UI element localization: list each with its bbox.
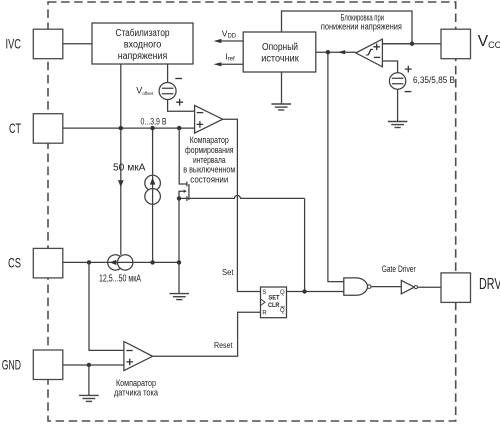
svg-text:состоянии: состоянии — [190, 175, 228, 185]
ground below Q1 — [170, 294, 190, 300]
U2 minus sign — [374, 56, 380, 58]
node Q junction — [302, 289, 306, 293]
wire U3 output to latch R input (Reset) — [153, 312, 261, 356]
U2 plus sign — [373, 44, 380, 51]
U3 label — [114, 378, 158, 398]
svg-text:R: R — [262, 311, 267, 317]
wire 50uA source vertical (CT rail to CS rail) — [152, 128, 154, 262]
wire CS rail — [63, 261, 179, 263]
svg-text:S: S — [262, 290, 266, 296]
latch U4 SET/CLR — [261, 287, 287, 318]
U3 minus sign — [126, 350, 132, 352]
svg-text:Компаратор: Компаратор — [116, 378, 156, 388]
svg-text:понижении напряжения: понижении напряжения — [321, 22, 402, 32]
off-time comparator U1 — [195, 105, 223, 133]
svg-text:Компаратор: Компаратор — [190, 135, 229, 145]
UVLO comparator U2 (points left) — [356, 39, 383, 67]
svg-text:источник: источник — [261, 54, 299, 65]
wire latch Q output to NAND bottom input — [287, 291, 344, 293]
arrow Iref to internal circuits — [220, 63, 244, 65]
svg-text:CLR: CLR — [268, 302, 280, 309]
wire U2 minus input to threshold source — [382, 61, 397, 73]
svg-text:Reset: Reset — [214, 340, 233, 350]
wire GND junction to ground — [88, 365, 90, 395]
wire driver to DRV pin — [418, 286, 442, 288]
ground below reference — [271, 104, 291, 110]
U1 minus sign — [197, 112, 203, 114]
block input voltage stabilizer — [92, 23, 193, 64]
latch clock triangle — [261, 299, 266, 306]
U3 plus sign — [126, 359, 133, 366]
UVLO block label — [321, 13, 402, 32]
node GND junction — [87, 363, 91, 367]
svg-text:GND: GND — [2, 356, 21, 372]
wire Q1 source line to latch Q column (with hop over Set line) — [179, 196, 305, 199]
svg-text:Gate Driver: Gate Driver — [382, 264, 416, 274]
svg-text:6,35/5,85 В: 6,35/5,85 В — [413, 75, 455, 85]
svg-text:Опорный: Опорный — [262, 42, 298, 53]
variable current source 12,5...50 uA (overlapping circles) — [108, 255, 133, 270]
node UVLO output junction — [326, 50, 330, 54]
V2 plus sign — [405, 66, 412, 73]
arrowhead current direction down — [118, 180, 124, 187]
wire GND pin to comparator plus input — [63, 364, 124, 366]
wire U2 output to reference (with arrowhead) — [316, 51, 356, 53]
svg-text:Q: Q — [280, 290, 285, 296]
node CT junction dots — [119, 126, 123, 130]
svg-text:CS: CS — [8, 255, 21, 271]
svg-text:CT: CT — [9, 120, 21, 136]
latch Qbar overline — [281, 306, 285, 308]
50uA current source (stacked circles) — [145, 175, 161, 204]
arrow VDD supply to internal circuits — [220, 40, 244, 42]
wire CT rail — [63, 127, 195, 129]
node CS junction dots — [87, 260, 91, 264]
U2 hysteresis symbol — [366, 49, 373, 55]
wire U1 output down to latch S input (Set) — [223, 119, 261, 291]
U1 label — [183, 135, 235, 185]
pin DRV — [441, 273, 471, 303]
node VCC junction — [410, 42, 414, 46]
svg-text:Q: Q — [280, 308, 285, 314]
transistor Q1 (CT discharge FET) drain feed from CT rail — [179, 128, 187, 184]
wire UVLO node down to NAND top input — [328, 52, 344, 281]
svg-text:IVC: IVC — [6, 36, 22, 52]
NAND gate U5 — [344, 278, 368, 295]
wire stabilizer bottom to Voffset source — [167, 64, 169, 83]
svg-text:12,5...50 мкА: 12,5...50 мкА — [99, 274, 141, 285]
pin VCC — [441, 29, 471, 59]
V1 minus sign — [175, 78, 182, 80]
svg-text:напряжения: напряжения — [118, 51, 168, 62]
V1 plus sign — [176, 99, 183, 106]
svg-text:входного: входного — [124, 40, 162, 51]
threshold source V2 6,35/5,85 V — [389, 73, 405, 89]
wire stabilizer bottom to CT rail and down to CS current source (charge path) — [120, 64, 122, 255]
wire VCC top rail to reference block — [282, 11, 442, 44]
gate driver buffer U6 — [401, 280, 414, 294]
svg-text:Set: Set — [222, 267, 234, 277]
svg-text:50 мкА: 50 мкА — [113, 163, 146, 174]
pin IVC — [33, 29, 63, 59]
wire NAND output to driver — [371, 286, 401, 288]
current sense comparator U3 — [124, 342, 153, 371]
wire reference block to ground — [281, 72, 283, 104]
pin CT — [33, 114, 63, 144]
wire gate/source junction down through CS rail to ground — [178, 198, 180, 293]
pin CS — [33, 248, 63, 278]
wire Q1 source column down to Q line — [304, 198, 306, 291]
svg-text:DRV: DRV — [479, 276, 500, 293]
svg-text:0...3,9 В: 0...3,9 В — [141, 116, 167, 126]
U5 output bubble — [367, 285, 371, 289]
block reference source — [243, 32, 316, 72]
svg-text:датчика тока: датчика тока — [114, 388, 158, 398]
U1 plus sign — [197, 121, 204, 128]
svg-text:в выключенном: в выключенном — [183, 165, 235, 175]
wire Voffset bottom to off-time comparator inverting input — [168, 99, 195, 111]
pin GND — [33, 350, 63, 380]
ground below GND junction — [79, 395, 99, 401]
wire IVC to input stabilizer — [63, 43, 92, 45]
svg-text:интервала: интервала — [193, 155, 226, 165]
svg-text:Стабилизатор: Стабилизатор — [116, 27, 170, 39]
wire V2 to ground — [397, 89, 399, 121]
Voffset source V1 — [159, 83, 176, 100]
node Q1 gate/source junction — [177, 196, 181, 200]
wire CS to current sense comparator inverting input — [89, 262, 124, 350]
transistor Q1 body — [179, 182, 189, 201]
V2 minus sign — [405, 91, 412, 93]
ground below V2 — [388, 122, 408, 128]
svg-text:формирования: формирования — [185, 145, 234, 155]
svg-text:SET: SET — [269, 295, 281, 302]
wire U2 plus input to VCC node — [382, 43, 412, 45]
U6 output bubble — [414, 286, 417, 289]
